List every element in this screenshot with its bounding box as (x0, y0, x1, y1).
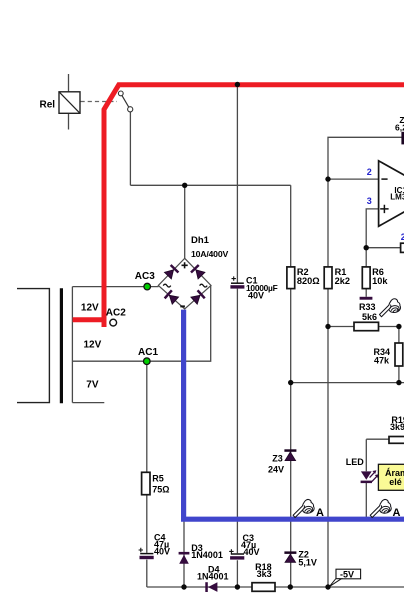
wire R6 bottom to gnd bar (365, 289, 367, 297)
svg-text:-5V: -5V (340, 570, 354, 580)
svg-text:40V: 40V (248, 290, 264, 300)
svg-text:Rel: Rel (40, 100, 56, 111)
wire 7V stub (72, 402, 104, 404)
resistor R34 (395, 343, 403, 366)
node AC1 (144, 358, 151, 365)
wire R1 vertical branch (327, 179, 329, 587)
svg-text:820Ω: 820Ω (297, 276, 320, 286)
resistor R1 (324, 267, 332, 289)
blue negative bus (184, 310, 404, 520)
svg-text:AC2: AC2 (106, 307, 126, 318)
svg-text:A: A (316, 507, 324, 519)
zener Z2 (284, 551, 296, 554)
bridge diamond outline (158, 258, 211, 309)
svg-text:LM3: LM3 (390, 193, 404, 202)
red AC2 tap wire (73, 317, 107, 322)
dashed relay link (81, 101, 118, 103)
junction pin2 (325, 176, 330, 181)
resistor R2 (287, 267, 295, 289)
LED (361, 471, 372, 479)
bridge minus mark (180, 305, 185, 307)
bridge diode bottom-left (164, 289, 179, 304)
svg-text:47k: 47k (374, 356, 390, 366)
junction R34 bottom (396, 380, 401, 385)
svg-text:75Ω: 75Ω (152, 484, 169, 494)
svg-text:R5: R5 (152, 474, 164, 484)
wire R5 to C4 (146, 495, 148, 587)
wire R2 branch vertical (290, 185, 292, 587)
resistor R5 (142, 472, 150, 494)
resistor R33 (354, 322, 379, 330)
wire red bus to C1 and down to C3 (236, 85, 238, 588)
svg-text:R33: R33 (359, 302, 376, 312)
svg-text:7V: 7V (86, 380, 99, 391)
node AC3 (144, 283, 151, 290)
svg-text:2k2: 2k2 (335, 276, 350, 286)
wire transformer secondary vertical (71, 287, 73, 403)
bridge diode bottom-right (190, 289, 205, 304)
svg-text:3: 3 (367, 196, 372, 206)
resistor box at pin3 edge (401, 243, 404, 252)
diode D3 (179, 552, 190, 555)
svg-text:12V: 12V (81, 303, 99, 314)
svg-text:3k3: 3k3 (257, 569, 272, 579)
gnd bar below R6 (360, 297, 373, 300)
capacitor C1 (231, 282, 244, 284)
switch blade (122, 96, 129, 108)
hand pointer A right (370, 499, 391, 517)
svg-text:1N4001: 1N4001 (191, 550, 223, 560)
wire bottom rail (147, 586, 404, 588)
svg-text:1N4001: 1N4001 (197, 572, 229, 582)
junction rail Z2 (288, 584, 293, 589)
wire LED branch top (366, 439, 389, 471)
wire D3 branch (183, 521, 185, 587)
hand pointer A left (293, 499, 314, 517)
svg-text:10A/400V: 10A/400V (191, 249, 228, 259)
wire AC1 tap to bridge right (72, 286, 210, 361)
junction R2 bottom (288, 380, 293, 385)
wire opamp pin3 to node (366, 209, 378, 248)
svg-text:24V: 24V (268, 465, 284, 475)
wire main horizontal rail y185 (130, 184, 290, 186)
capacitor C4 (140, 553, 153, 555)
bridge diode top-right (190, 264, 205, 279)
junction bridge plus (182, 183, 187, 188)
zener Z3 (284, 449, 296, 452)
wire AC3 tap (72, 286, 158, 288)
red supply wire main (104, 85, 404, 327)
junction on red bus (235, 82, 240, 87)
bridge plus mark (182, 262, 188, 268)
transformer primary bracket (17, 289, 49, 403)
junction rail -5V (325, 584, 330, 589)
svg-text:5,1V: 5,1V (298, 557, 317, 567)
svg-text:Z3: Z3 (272, 454, 283, 464)
resistor R6 (362, 267, 370, 289)
junction rail C3 (235, 584, 240, 589)
resistor R18 (252, 583, 275, 592)
svg-text:LED: LED (346, 457, 365, 467)
wire opamp pin2 horizontal (328, 178, 379, 180)
wire R34 top lead (398, 327, 400, 344)
svg-text:5k6: 5k6 (362, 312, 377, 322)
wire feedback to zener Z1 (328, 137, 402, 179)
bridge tilde left (163, 284, 171, 287)
wire bridge plus to rail (184, 185, 186, 258)
-5V label box (336, 569, 361, 579)
wire pin3 node to edge box (366, 247, 400, 249)
relay top lead (68, 74, 70, 92)
node AC2 (110, 319, 117, 326)
svg-text:AC3: AC3 (135, 271, 155, 282)
wire horizontal R2-R34 bottom (291, 382, 404, 384)
op-amp IC1 triangle (379, 161, 404, 227)
junction pin3 (364, 245, 369, 250)
switch contact circles (118, 91, 123, 96)
junction rail D3 (181, 584, 186, 589)
wire R33 right lead (379, 326, 399, 328)
yellow callout box (378, 464, 404, 490)
svg-text:2: 2 (367, 167, 372, 177)
junction R33 left (325, 324, 330, 329)
wire switch to main node line (129, 112, 131, 186)
capacitor C3 (231, 553, 244, 555)
wire AC1 down to R5 (146, 361, 148, 472)
svg-text:10k: 10k (372, 276, 388, 286)
svg-text:elé: elé (389, 477, 402, 487)
wire R33 left lead (328, 326, 354, 328)
svg-text:Dh1: Dh1 (191, 235, 210, 246)
wire pin3 node down to R6 (365, 248, 367, 267)
zener Z1 at top edge (401, 132, 404, 145)
svg-text:AC1: AC1 (138, 347, 158, 358)
diode D4 (205, 582, 208, 592)
svg-text:40V: 40V (154, 547, 170, 557)
bridge tilde right (200, 284, 208, 287)
hand pointer R33 (380, 299, 401, 317)
svg-text:A: A (393, 507, 401, 519)
wire R34 bottom lead (398, 366, 400, 383)
svg-text:40V: 40V (244, 547, 260, 557)
relay bottom lead (68, 113, 70, 129)
junction R33 right (396, 324, 401, 329)
svg-text:3k9: 3k9 (390, 422, 404, 432)
relay Rel box (59, 92, 80, 114)
svg-text:12V: 12V (84, 340, 102, 351)
transformer core bar (60, 288, 63, 403)
svg-text:6,2: 6,2 (395, 122, 404, 132)
resistor R19 (389, 437, 404, 444)
bridge diode top-left (164, 264, 179, 279)
wire LED to blue bus (365, 483, 367, 517)
